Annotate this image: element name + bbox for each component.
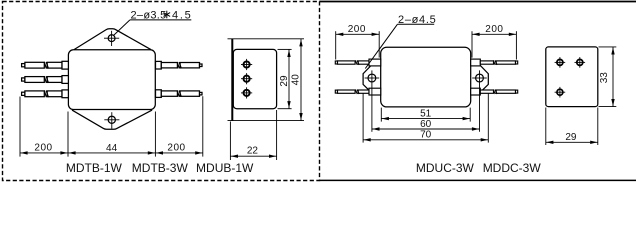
MDUC left wire 2 [335,88,380,95]
MDTB dimension line 200-44-200 [20,152,203,154]
svg-text:MDUC-3W: MDUC-3W [416,161,475,175]
MDUC left wire 1 [335,59,380,66]
MDTB bottom mounting flange [72,110,152,129]
MDUC bottom dim extension lines [363,94,488,143]
callout underline [397,23,434,25]
dim line 22 [230,155,276,157]
side view terminal 1 [241,59,252,70]
MDUC left flange [363,66,381,93]
MDTB top hole centerlines [104,37,119,39]
right pin row 1 [156,61,203,69]
MDTB bottom hole centerlines [104,119,119,121]
MDUC right mounting hole [476,74,484,82]
callout leader [114,20,130,36]
svg-text:60: 60 [420,119,432,130]
MDUC left 200 dim line [336,33,380,35]
callout underline [130,19,191,21]
dim line 29 vertical [288,49,290,108]
dimension arrowheads [20,151,202,154]
dim line 33 vertical [612,47,614,107]
MDUC right flange [471,66,489,93]
svg-text:29: 29 [279,75,290,87]
svg-text:200: 200 [485,24,503,35]
callout leader [365,24,397,68]
MDDC dim arrowheads [546,47,615,144]
svg-text:29: 29 [565,132,577,143]
MDUC left hole h-centerline [365,77,380,79]
svg-text:MDTB-1W: MDTB-1W [66,161,123,175]
MDTB top mounting flange [74,29,151,50]
MDUB body box [233,49,276,108]
MDUC right wire 1 [471,59,518,66]
MDTB dimension extension lines [20,96,203,156]
svg-text:MDDC-3W: MDDC-3W [483,161,542,175]
MDUC right hole h-centerline [472,77,487,79]
svg-text:70: 70 [420,130,432,141]
200 dim arrowheads [336,33,516,36]
bottom dim arrowheads [364,117,488,142]
dim line 51 [381,118,470,120]
svg-text:40: 40 [291,74,302,86]
right panel solid border bottom [320,179,636,181]
MDDC hole bottom-left [555,87,566,98]
MDDC hole top-right [575,57,586,68]
MDUC left mounting hole [368,74,376,82]
MDDC plate [546,47,598,107]
MDDC extension lines [546,47,617,145]
left terminal row 1 [22,61,69,69]
vertical dim arrowheads [231,39,303,158]
MDUC right 200 dim line [472,33,516,35]
svg-text:MDTB-3W: MDTB-3W [132,161,189,175]
MDUC hole v-centerlines extending to 60 dim [372,70,480,131]
dim line 70 [363,139,488,141]
MDTB body [68,50,155,110]
MDUC top 200 dim extension lines [336,31,517,59]
svg-text:44: 44 [106,143,118,154]
MDDC hole top-left [555,57,566,68]
left panel dashed border [3,2,320,181]
svg-text:MDUB-1W: MDUB-1W [196,161,254,175]
svg-text:200: 200 [167,143,185,154]
dim line 29 [546,141,598,143]
svg-text:22: 22 [247,146,259,157]
svg-text:33: 33 [599,72,610,84]
left terminal row 3 [22,90,69,98]
dim line 60 [372,128,480,130]
right panel solid border top [320,1,636,3]
side view terminal 2 [241,73,252,84]
MDUC body [381,47,471,107]
svg-text:200: 200 [34,143,52,154]
mounting plate edge [231,39,233,121]
MDUC right wire 2 [471,88,518,95]
svg-text:51: 51 [420,108,432,119]
side view terminal 3 [241,87,252,98]
MDTB bottom mounting hole [108,116,115,123]
svg-text:200: 200 [348,24,366,35]
dim line 40 vertical [300,39,302,121]
left terminal row 2 [22,76,69,84]
MDUB extension lines [228,39,305,160]
right pin row 2 [156,90,203,98]
MDTB top mounting hole [108,35,115,42]
